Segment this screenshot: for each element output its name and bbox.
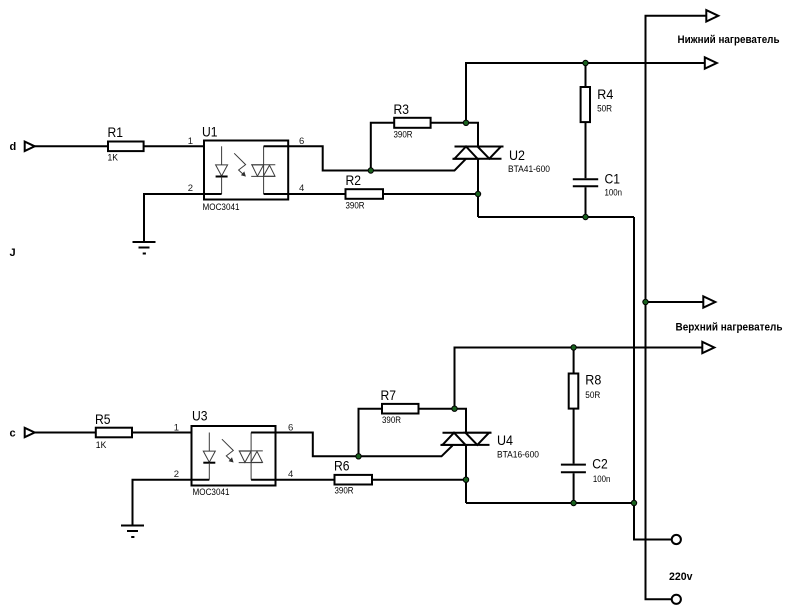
resistor R1 — [108, 125, 144, 164]
U3 internal light arrow — [222, 439, 234, 462]
wire R4 C1 branch — [585, 63, 587, 217]
svg-text:J: J — [10, 247, 16, 259]
node junction C1 bottom — [583, 214, 588, 219]
node junction R2 U2 — [475, 191, 480, 196]
resistor R5 — [95, 412, 132, 451]
U3 internal LED diode — [203, 433, 215, 480]
op-amp U3 optocoupler MOC3041 box — [192, 409, 276, 498]
svg-text:2: 2 — [188, 183, 193, 194]
svg-text:390R: 390R — [335, 486, 354, 497]
wire U3 pin6 to U4 gate — [251, 433, 452, 457]
wire R7 branch — [359, 409, 455, 457]
svg-text:50R: 50R — [597, 104, 612, 115]
svg-text:R5: R5 — [95, 412, 111, 427]
svg-text:R3: R3 — [394, 102, 410, 117]
svg-text:R6: R6 — [334, 459, 350, 474]
node junction R6 U4 — [463, 477, 468, 482]
svg-text:U2: U2 — [509, 148, 525, 163]
node junction R7 branch — [356, 454, 361, 459]
main 220v rail right with top output row — [646, 16, 707, 600]
node junction rail y302 — [643, 299, 648, 304]
svg-text:C1: C1 — [605, 172, 621, 187]
svg-text:1K: 1K — [96, 440, 107, 451]
svg-text:R1: R1 — [108, 125, 124, 140]
wire U4 bottom to rail B — [466, 502, 634, 504]
capacitor C1 — [573, 172, 622, 199]
svg-text:U1: U1 — [202, 125, 218, 140]
220v terminal top circle — [672, 535, 681, 544]
output arrow 3 (verkhny top) — [703, 296, 715, 307]
node junction R3 branch — [368, 168, 373, 173]
svg-text:4: 4 — [299, 183, 304, 194]
svg-text:1: 1 — [174, 422, 179, 433]
svg-text:U3: U3 — [192, 409, 208, 424]
wire R2 from U1 pin4 to U2 MT — [264, 193, 478, 195]
svg-text:1K: 1K — [108, 152, 119, 163]
svg-text:1: 1 — [188, 136, 193, 147]
svg-text:R4: R4 — [597, 87, 614, 102]
220v terminal bottom circle — [672, 595, 681, 604]
ground symbol 2 — [121, 526, 144, 538]
wire d input to R1 to U1 pin1 — [35, 145, 222, 147]
resistor R3 — [394, 102, 431, 141]
svg-text:C2: C2 — [592, 457, 608, 472]
node junction R8 top — [571, 345, 576, 350]
node junction R7 right — [452, 406, 457, 411]
wire verkhny top output row y302 — [646, 301, 704, 303]
node junction C2 bottom — [571, 500, 576, 505]
transistor U4 triac BTA16-600 — [441, 433, 540, 461]
svg-text:R7: R7 — [381, 388, 397, 403]
wire R8 C2 branch — [573, 348, 575, 504]
svg-text:MOC3041: MOC3041 — [193, 487, 230, 498]
op-amp U1 optocoupler MOC3041 box — [202, 125, 288, 214]
resistor R8 — [569, 373, 602, 409]
output arrow 2 (nizhny bottom) — [705, 57, 717, 68]
ground symbol J — [133, 242, 156, 254]
svg-text:390R: 390R — [394, 130, 413, 141]
svg-text:BTA41-600: BTA41-600 — [508, 164, 550, 175]
output arrow 4 (verkhny bottom) — [702, 342, 714, 353]
wire U1 pin6 to U2 gate — [264, 146, 466, 170]
svg-text:2: 2 — [174, 469, 179, 480]
svg-text:R2: R2 — [346, 173, 362, 188]
svg-text:390R: 390R — [382, 415, 401, 426]
resistor R6 — [334, 459, 372, 497]
svg-text:220v: 220v — [669, 571, 693, 583]
svg-text:Верхний нагреватель: Верхний нагреватель — [676, 321, 783, 333]
wire U1 pin2 to ground — [144, 194, 222, 242]
node junction rail B y503 — [631, 500, 636, 505]
capacitor C2 — [561, 457, 611, 486]
input connector arrow c — [25, 428, 35, 437]
wire verkhny bottom output row y347.5 to U4 top — [455, 348, 703, 409]
wire rail B down to 220v top terminal — [634, 217, 671, 540]
svg-text:R8: R8 — [585, 373, 601, 388]
wire R6 from U3 pin4 to U4 MT — [251, 479, 466, 481]
transistor U2 triac BTA41-600 — [453, 147, 551, 175]
wire U2 MT1 down — [477, 159, 479, 217]
wire U3 pin2 to ground — [133, 480, 210, 526]
svg-text:BTA16-600: BTA16-600 — [497, 449, 539, 460]
input connector arrow d — [25, 142, 35, 151]
svg-text:100n: 100n — [593, 474, 611, 485]
svg-text:Нижний нагреватель: Нижний нагреватель — [678, 34, 780, 46]
resistor R7 — [381, 388, 419, 426]
svg-text:MOC3041: MOC3041 — [203, 202, 240, 213]
node junction R4 top — [583, 60, 588, 65]
wire jog R7 node to U4 top — [455, 409, 467, 434]
wire heater output row y63 and R3 node branch — [466, 63, 705, 123]
U3 internal photo-triac — [239, 433, 263, 480]
wire U4 MT1 down — [465, 445, 467, 503]
node junction R3 right — [463, 120, 468, 125]
svg-text:50R: 50R — [585, 390, 600, 401]
wire U2 bottom to rail B — [478, 216, 634, 218]
output arrow 1 (nizhny top) — [706, 10, 718, 21]
resistor R2 — [346, 173, 384, 212]
svg-text:100n: 100n — [605, 188, 623, 199]
wire jog R3 node to U2 top — [466, 123, 478, 147]
wire c input to R5 to U3 pin1 — [35, 432, 210, 434]
svg-text:c: c — [10, 427, 16, 439]
svg-text:U4: U4 — [497, 433, 514, 448]
resistor R4 — [581, 87, 614, 122]
svg-text:4: 4 — [288, 469, 293, 480]
U1 internal photo-triac — [251, 146, 275, 194]
svg-text:d: d — [10, 141, 17, 153]
svg-text:390R: 390R — [346, 201, 365, 212]
wire R3 branch — [371, 123, 466, 171]
U1 internal light arrow — [234, 153, 246, 176]
U1 internal LED diode — [216, 146, 228, 194]
